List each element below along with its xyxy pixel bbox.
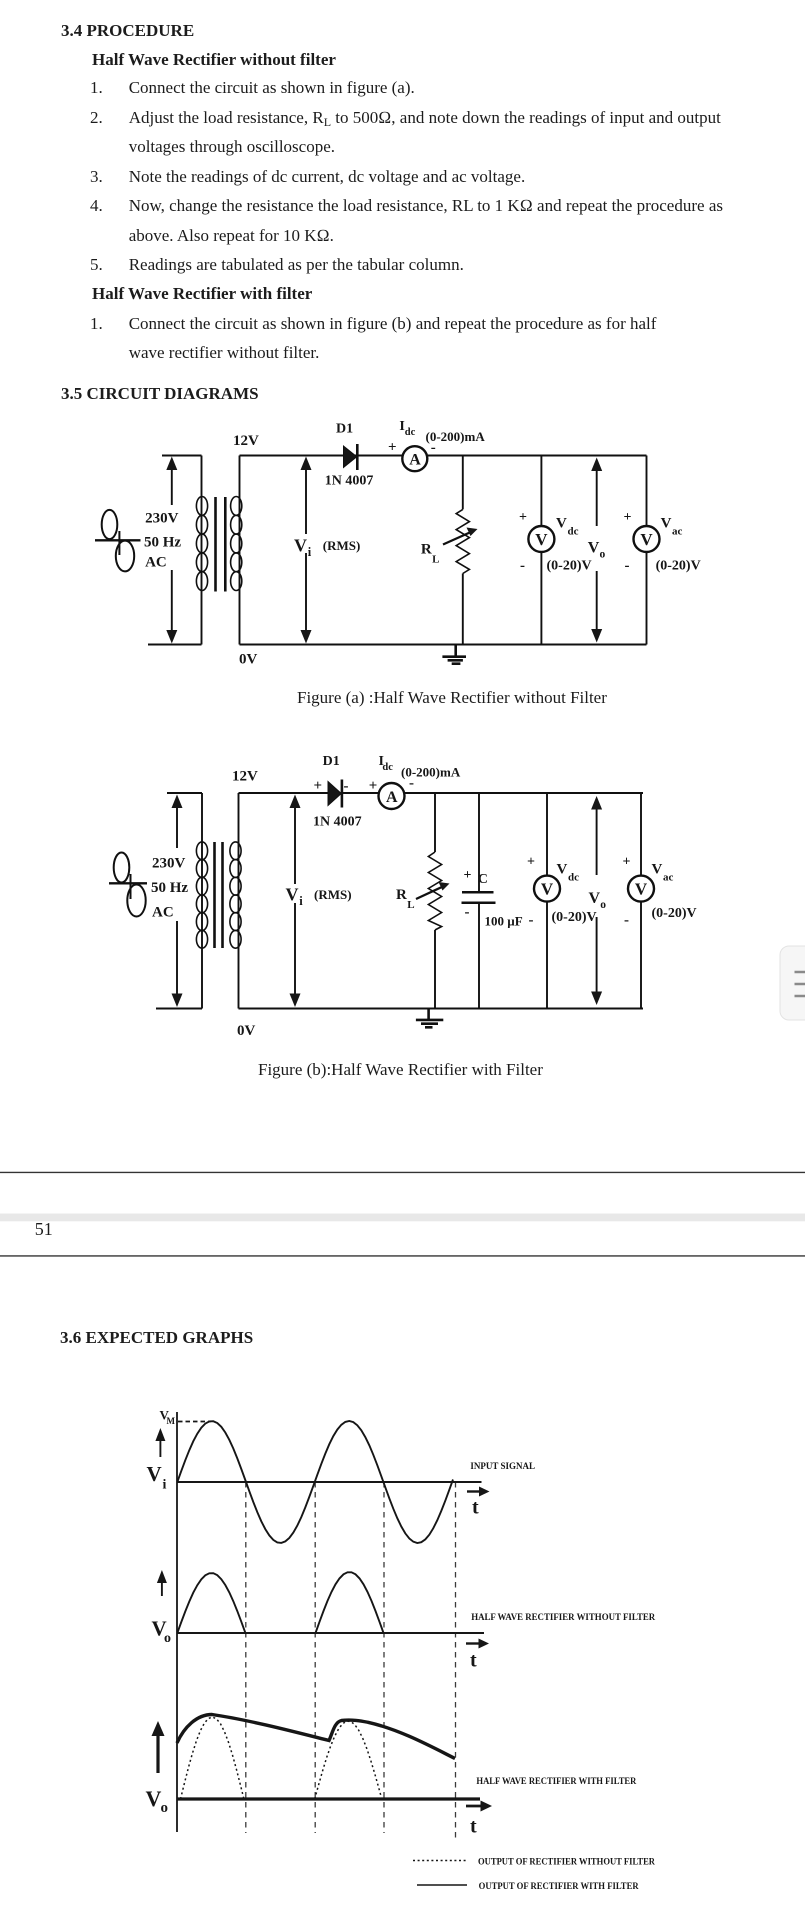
svg-text:o: o [600,899,606,911]
svg-text:t: t [472,1497,479,1519]
svg-text:+: + [314,778,323,794]
svg-text:C: C [478,872,488,887]
svg-text:i: i [299,894,303,908]
svg-text:L: L [407,899,414,911]
svg-text:-: - [529,913,534,929]
svg-text:+: + [527,855,535,870]
svg-text:-: - [625,558,630,574]
svg-text:(RMS): (RMS) [323,538,361,553]
svg-text:R: R [421,541,432,557]
svg-text:V: V [661,516,672,532]
svg-text:R: R [396,887,407,903]
svg-text:V: V [146,1786,162,1811]
svg-text:V: V [588,540,600,557]
svg-text:dc: dc [568,872,579,884]
svg-text:+: + [624,510,632,525]
svg-text:+: + [519,510,527,525]
svg-text:50 Hz: 50 Hz [151,880,188,896]
svg-text:(0-20)V: (0-20)V [547,559,592,574]
svg-text:(0-20)V: (0-20)V [652,906,697,921]
svg-text:V: V [652,862,663,878]
svg-text:230V: 230V [152,856,186,872]
svg-text:+: + [623,855,631,870]
svg-text:V: V [294,536,307,556]
svg-text:0V: 0V [239,652,258,668]
svg-text:i: i [308,545,312,559]
svg-text:o: o [164,1631,171,1646]
svg-text:-: - [344,779,349,795]
svg-text:dc: dc [405,427,416,438]
svg-text:230V: 230V [145,511,179,527]
svg-text:dc: dc [382,762,393,773]
svg-text:D1: D1 [323,754,340,769]
svg-text:ac: ac [663,872,674,884]
svg-text:V: V [541,880,554,899]
svg-text:i: i [163,1478,167,1493]
svg-text:t: t [470,1650,477,1672]
svg-text:AC: AC [145,555,167,571]
svg-text:V: V [556,516,567,532]
svg-text:-: - [624,913,629,929]
svg-text:HALF WAVE RECTIFIER WITHOUT FI: HALF WAVE RECTIFIER WITHOUT FILTER [471,1612,655,1622]
svg-text:o: o [600,549,606,561]
svg-text:(RMS): (RMS) [314,887,352,902]
svg-text:12V: 12V [233,433,259,449]
svg-text:AC: AC [152,905,174,921]
svg-text:OUTPUT OF RECTIFIER WITH FILTE: OUTPUT OF RECTIFIER WITH FILTER [479,1881,639,1891]
svg-text:(0-20)V: (0-20)V [656,559,701,574]
svg-text:+: + [388,440,397,456]
svg-text:M: M [167,1416,176,1426]
svg-text:ac: ac [672,526,683,538]
svg-text:A: A [409,452,421,469]
svg-text:V: V [589,890,601,907]
svg-text:OUTPUT OF RECTIFIER WITHOUT FI: OUTPUT OF RECTIFIER WITHOUT FILTER [478,1857,655,1867]
svg-text:-: - [520,558,525,574]
svg-text:1N 4007: 1N 4007 [325,474,374,489]
svg-text:dc: dc [568,526,579,538]
svg-text:L: L [432,553,439,565]
svg-text:V: V [147,1462,162,1486]
svg-text:o: o [161,1800,169,1816]
svg-text:-: - [431,440,436,456]
svg-text:50 Hz: 50 Hz [144,535,181,551]
svg-text:(0-20)V: (0-20)V [552,910,597,925]
svg-text:V: V [535,530,548,549]
svg-text:+: + [369,778,378,794]
svg-text:t: t [470,1816,477,1838]
svg-text:-: - [409,776,414,792]
svg-text:V: V [286,885,299,905]
svg-text:-: - [465,905,470,921]
svg-text:HALF WAVE RECTIFIER WITH FILTE: HALF WAVE RECTIFIER WITH FILTER [476,1776,636,1786]
svg-text:A: A [386,789,398,806]
svg-text:INPUT SIGNAL: INPUT SIGNAL [470,1461,535,1471]
svg-text:V: V [635,880,648,899]
svg-text:0V: 0V [237,1023,256,1039]
svg-text:12V: 12V [232,769,258,785]
svg-text:D1: D1 [336,421,353,436]
svg-text:100 µF: 100 µF [485,914,523,929]
svg-text:1N 4007: 1N 4007 [313,815,362,830]
svg-text:V: V [557,862,568,878]
svg-text:V: V [640,530,653,549]
svg-text:+: + [464,868,472,883]
